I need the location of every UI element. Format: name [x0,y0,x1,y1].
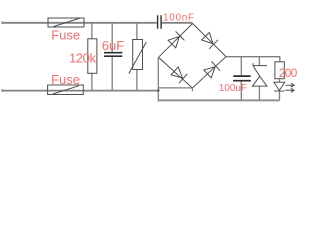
wire 200 to LED [279,79,281,101]
capacitor 6uF [104,53,122,57]
bridge rectifier diamond [158,24,226,89]
svg-text:6uF: 6uF [102,38,124,53]
wire bottom input rail [2,90,158,92]
svg-text:200: 200 [279,66,298,80]
wire 100uF leads [240,57,242,101]
wire 6uF leads [111,23,113,91]
wire bottom output rail [158,99,280,101]
node junction [157,89,160,92]
wire left corner drop + bottom output rail [157,57,159,100]
wire 120k leads [91,23,93,91]
svg-text:Fuse: Fuse [51,27,80,42]
LED arrows [285,83,294,92]
wire varistor leads [136,23,138,91]
resistor 120k [88,39,97,74]
node input terminal bottom [1,89,3,92]
diode D4 bottom-right [204,62,220,78]
svg-text:100uF: 100uF [219,83,247,94]
wire zener leads [258,57,260,101]
capacitor C2 100uF [233,76,251,81]
diode D3 bottom-left [171,67,187,83]
LED D6 [274,82,285,91]
diode D1 top-left [168,31,184,47]
wire bottom corner stub [191,88,193,91]
svg-text:Fuse: Fuse [51,72,80,87]
svg-text:120k: 120k [69,50,96,65]
wire bottom corner link [158,87,192,89]
wire top rail left [2,22,157,24]
wire top rail right of 100nF [162,22,193,24]
node input terminal top [1,21,3,24]
capacitor C1 100nF [158,15,162,29]
resistor 200 [275,62,284,79]
fuse F2 [48,85,84,95]
wire output top rail [226,57,280,62]
varistor RV1 [129,40,146,74]
zener diode D5 [252,63,267,86]
diode D2 top-right [202,32,218,48]
svg-text:100nF: 100nF [163,13,195,24]
fuse F1 [48,18,84,27]
